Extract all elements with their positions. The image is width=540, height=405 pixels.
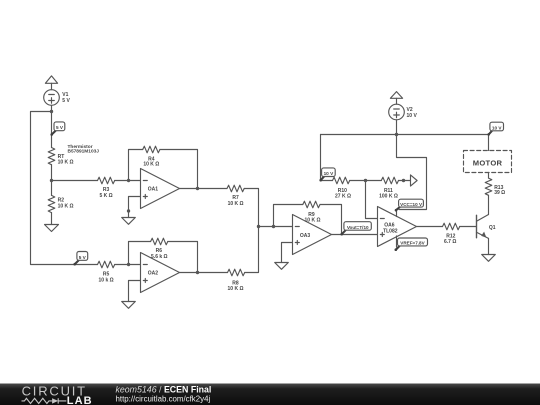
op-amp OA1 [141, 169, 180, 209]
svg-text:OA1: OA1 [148, 187, 159, 193]
footer bar [0, 384, 540, 405]
wire R3 to OA1 minus [115, 180, 141, 182]
wire Q1 emitter to ground [488, 238, 490, 254]
ground OA3 [275, 263, 289, 270]
svg-text:OA2: OA2 [148, 271, 159, 277]
wire R11 to probe [399, 180, 411, 182]
svg-text:10 V: 10 V [324, 171, 335, 176]
wire R8 to summing node [245, 227, 259, 273]
svg-text:10 K Ω: 10 K Ω [58, 159, 74, 165]
wire R10 to R11 [350, 180, 382, 182]
wire feedback loop OA1 [129, 150, 143, 181]
svg-text:10 K Ω: 10 K Ω [228, 286, 244, 292]
svg-text:39 Ω: 39 Ω [494, 190, 505, 196]
op-amp OA3 [293, 215, 332, 255]
node dot on OA1 ground stem [127, 209, 130, 212]
wire rail left drop to R10 [321, 135, 333, 181]
label R9 value [305, 212, 321, 224]
resistor R5 [98, 261, 115, 268]
svg-text:keom5146 / ECEN Final: keom5146 / ECEN Final [116, 385, 212, 395]
svg-text:5 V: 5 V [79, 255, 87, 260]
svg-text:http://circuitlab.com/cfk2y4j: http://circuitlab.com/cfk2y4j [116, 394, 211, 403]
wire R5 to OA2 minus [115, 264, 141, 266]
wire R6 to output [168, 242, 198, 273]
node junction RT/R2/R3 [50, 179, 53, 182]
resistor R8 [228, 269, 245, 276]
label V1 value [62, 92, 70, 104]
label R5 value [99, 272, 114, 284]
svg-text:10 K Ω: 10 K Ω [228, 201, 244, 207]
svg-text:MOTOR: MOTOR [473, 158, 503, 167]
node junction V2 rail [395, 133, 398, 136]
svg-text:27 K Ω: 27 K Ω [335, 194, 351, 200]
node junction R6 feedback tap [127, 263, 130, 266]
ground OA2 [122, 302, 136, 309]
wire node to R3 [52, 180, 98, 182]
node flag Vout=T/10 [340, 222, 371, 236]
wire rail to motor [488, 135, 490, 151]
label R10 value [335, 188, 351, 199]
svg-text:100 K Ω: 100 K Ω [379, 194, 398, 200]
node junction R4 feedback tap [127, 179, 130, 182]
node junction below V1 [50, 110, 53, 113]
resistor R4 [143, 146, 160, 153]
svg-text:Q1: Q1 [489, 225, 496, 231]
ground OA1 [122, 218, 136, 225]
node flag 10V (right) [487, 122, 503, 136]
resistor R12 [443, 223, 460, 230]
svg-text:B57891M103J: B57891M103J [68, 149, 100, 155]
wire summing node to OA3 minus [259, 226, 293, 228]
node flag 10V (left) [319, 168, 335, 182]
stub OA6 V+ pin [396, 210, 398, 217]
label R6 value [151, 248, 168, 260]
wire OA3 plus to ground [282, 243, 293, 263]
svg-text:5.6 k Ω: 5.6 k Ω [151, 254, 168, 260]
ground below R2 [45, 225, 59, 232]
voltage source V2 [389, 104, 405, 120]
svg-text:10 K Ω: 10 K Ω [305, 217, 321, 223]
wire OA1 plus to ground [129, 197, 141, 218]
svg-text:6.7 Ω: 6.7 Ω [444, 239, 456, 245]
wire OA2 output [180, 272, 228, 274]
motor M1 box [464, 151, 512, 173]
wire R4 to output [160, 150, 198, 189]
op-amp OA6 TL082 [378, 207, 417, 247]
svg-text:5 V: 5 V [56, 125, 64, 130]
power flag +5V (top of V1) [45, 76, 57, 90]
resistor R2 [48, 195, 55, 212]
node dot at probe [402, 179, 405, 182]
label R13 value [494, 185, 505, 196]
svg-text:5 V: 5 V [62, 98, 70, 104]
label R12 value [444, 234, 456, 246]
svg-text:10 V: 10 V [407, 113, 418, 119]
node junction summing [257, 225, 260, 228]
svg-text:VREF=7.8V: VREF=7.8V [400, 241, 425, 246]
label R3 value [100, 187, 113, 199]
resistor R3 [98, 177, 115, 184]
wire RT to R2 [51, 165, 53, 196]
label R11 value [379, 188, 398, 199]
wire OA6 output [417, 226, 443, 228]
label R2 value [58, 198, 74, 210]
label R4 value [143, 157, 159, 168]
wire left branch from V1 node [31, 112, 98, 265]
svg-text:VCC=10 V: VCC=10 V [400, 202, 423, 207]
node junction R9 feedback tap [272, 225, 275, 228]
ground Q1 [482, 255, 496, 262]
wire feedback loop OA3 [274, 205, 303, 227]
node flag 5V (R5 input) [73, 252, 87, 266]
wire V1 to thermistor [51, 105, 53, 147]
svg-text:10 K Ω: 10 K Ω [143, 162, 159, 168]
resistor R10 [333, 177, 350, 184]
resistor R9 [303, 201, 320, 208]
voltage source V1 [44, 90, 60, 106]
wire R9 to output [320, 205, 342, 235]
label R7 value [228, 195, 244, 207]
svg-text:10 K Ω: 10 K Ω [58, 204, 74, 210]
label V2 value [407, 107, 418, 119]
power flag +10V (top of V2) [390, 92, 402, 105]
label Thermistor part [68, 144, 100, 155]
svg-text:OA3: OA3 [300, 233, 311, 239]
wire OA3 output to OA6 plus [332, 234, 378, 236]
node flag VCC=10 V [395, 199, 424, 211]
stub OA6 V- pin [396, 236, 398, 247]
svg-text:5 K Ω: 5 K Ω [100, 193, 113, 199]
svg-text:10 k Ω: 10 k Ω [99, 278, 114, 284]
wire Q1 collector to R13 [488, 195, 490, 214]
wire 10V rail [321, 134, 489, 136]
op-amp OA2 [141, 253, 180, 293]
label R8 value [228, 281, 244, 293]
wire VCC route from rail to OA6 V+ [397, 135, 427, 210]
node junction R10/R11 [364, 179, 367, 182]
wire OA2 plus to ground [129, 281, 141, 302]
wire R2 to ground [51, 213, 53, 225]
svg-text:LAB: LAB [67, 395, 93, 405]
resistor R7 [227, 185, 244, 192]
node flag 5V (thermistor top) [50, 122, 64, 136]
probe triangle (output port) [411, 175, 418, 186]
svg-text:TL082: TL082 [383, 228, 398, 234]
resistor R11 [381, 177, 398, 184]
svg-text:V1: V1 [62, 92, 68, 98]
wire motor to R13 [488, 173, 490, 179]
wire OA1 output [180, 188, 228, 190]
transistor Q1 [477, 215, 489, 239]
svg-text:10 V: 10 V [492, 125, 503, 130]
wire junction down to OA6 minus [366, 181, 378, 219]
node flag VREF=7.8V [395, 238, 428, 251]
node junction OA1 output [196, 187, 199, 190]
label RT value [58, 154, 74, 165]
thermistor RT [48, 148, 55, 165]
wire feedback loop OA2 [129, 242, 151, 265]
resistor R13 [485, 178, 492, 195]
wire R12 to Q1 base [460, 226, 477, 228]
wire V2 to rail [396, 120, 398, 135]
svg-text:Vout=T/10: Vout=T/10 [347, 225, 369, 230]
resistor R6 [151, 238, 168, 245]
logo resistor-diode glyph [22, 398, 67, 403]
wire R7 to summing node [244, 189, 258, 227]
node junction OA2 output [196, 271, 199, 274]
